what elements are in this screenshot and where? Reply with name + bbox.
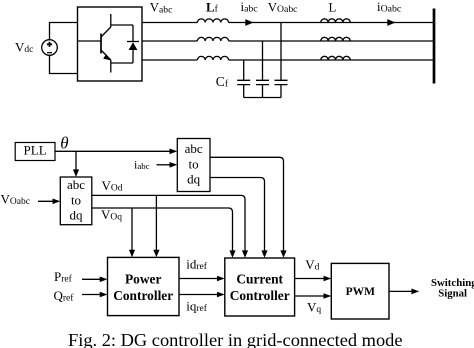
label Vdc [15, 39, 33, 55]
wire theta branch down [75, 151, 77, 171]
block Power Controller [108, 257, 180, 315]
wire theta to abc-dq [55, 150, 172, 152]
block Current Controller [225, 258, 295, 316]
svg-text:VOabc: VOabc [1, 191, 30, 207]
transistor Q1 [78, 14, 112, 73]
svg-text:abc: abc [185, 141, 203, 156]
arrow Voq into current controller [229, 250, 235, 257]
wire Vdc bottom [50, 55, 78, 73]
wire Voq to current controller [92, 208, 233, 251]
svg-text:Controller: Controller [230, 288, 290, 303]
svg-text:L: L [329, 0, 337, 14]
label L [329, 0, 337, 14]
wire phase a (top) [142, 22, 434, 24]
source Vdc [42, 40, 58, 56]
arrow id into current controller [280, 250, 286, 257]
wire phase c (bottom) [142, 59, 434, 61]
svg-text:PWM: PWM [346, 286, 376, 298]
svg-text:VOabc: VOabc [268, 1, 298, 16]
arrow theta into abc-dq 2 [73, 169, 79, 177]
inductor Lf phase c [197, 56, 228, 60]
svg-text:abc: abc [67, 177, 85, 192]
arrow Vd [324, 276, 332, 282]
label Cf [216, 74, 229, 90]
inductor L phase a [321, 19, 350, 23]
arrow iabc [245, 19, 253, 26]
inductor Lf phase b [197, 37, 228, 41]
arrow switching signal [411, 289, 419, 295]
arrow ioabc [387, 19, 395, 26]
label Qref [54, 288, 75, 304]
block abc-to-dq U3 (voltage) [60, 177, 92, 225]
wire idref to current controller [179, 278, 219, 280]
wire Vdc top [50, 23, 78, 40]
caption Fig. 2 [68, 330, 403, 348]
arrow iqref [217, 292, 225, 298]
wire iabc into abc-dq [157, 164, 172, 166]
wire iq from abc-dq to current controller [210, 178, 265, 252]
svg-text:to: to [189, 156, 199, 171]
svg-text:Vq: Vq [307, 300, 321, 315]
svg-text:Controller: Controller [113, 288, 173, 303]
inverter box U1 [78, 7, 143, 81]
svg-text:Current: Current [236, 271, 283, 286]
capacitor Cf phase a [275, 23, 288, 98]
label idref [186, 257, 208, 273]
label Vd [305, 257, 319, 272]
svg-text:to: to [71, 192, 81, 207]
capacitor Cf phase c [237, 60, 250, 98]
svg-text:PLL: PLL [24, 143, 47, 158]
arrow Vq [324, 293, 332, 299]
wire iqref to current controller [179, 294, 219, 296]
label iabc (control) [134, 158, 150, 172]
svg-text:VOd: VOd [102, 178, 123, 194]
svg-text:idref: idref [186, 257, 208, 273]
svg-text:iabc: iabc [134, 158, 150, 172]
arrow Voq into power controller [129, 250, 135, 257]
wire Voq branch to power controller [131, 208, 133, 251]
svg-text:Vabc: Vabc [150, 1, 173, 16]
svg-text:dq: dq [70, 207, 84, 222]
wire Qref into power controller [82, 294, 101, 296]
label iqref [186, 298, 208, 314]
svg-text:iqref: iqref [186, 298, 208, 314]
capacitor Cf phase b [256, 41, 269, 98]
svg-text:VOq: VOq [101, 207, 122, 223]
svg-text:θ: θ [60, 134, 68, 153]
wire id from abc-dq to current controller [210, 157, 284, 251]
svg-text:Fig. 2: DG controller in grid-: Fig. 2: DG controller in grid-connected … [68, 330, 403, 348]
label Switching Signal [431, 277, 474, 300]
label Lf [206, 0, 219, 15]
svg-text:Lf: Lf [206, 0, 219, 15]
inductor L phase c [321, 56, 350, 60]
svg-text:iabc: iabc [241, 0, 259, 15]
block PWM [331, 263, 389, 319]
label ioabc [377, 0, 402, 15]
block PLL [15, 143, 55, 161]
arrow Vod into current controller [242, 250, 248, 257]
arrow Pref [100, 277, 108, 283]
wire capacitor bottom bus [244, 97, 281, 99]
inductor Lf phase a [197, 19, 228, 23]
svg-text:Pref: Pref [54, 269, 73, 285]
svg-text:Cf: Cf [216, 74, 229, 90]
arrow theta into abc-dq [170, 149, 178, 155]
wire phase b (mid) [142, 40, 434, 42]
svg-text:Qref: Qref [54, 288, 75, 304]
svg-text:iOabc: iOabc [377, 0, 402, 15]
wire Vd to PWM [295, 278, 326, 280]
label Pref [54, 269, 73, 285]
diode D1 [111, 25, 139, 63]
arrow idref [217, 276, 225, 282]
label theta [60, 134, 68, 153]
label Voabc [268, 1, 298, 16]
wire PWM output [389, 290, 413, 292]
wire Pref into power controller [82, 278, 101, 280]
svg-text:Signal: Signal [438, 287, 467, 299]
block abc-to-dq U2 (current) [177, 139, 210, 192]
inductor L phase b [321, 37, 350, 41]
arrow Qref [100, 292, 108, 298]
wire Voabc into abc-dq [38, 200, 54, 202]
arrow iabc into abc-dq [170, 162, 178, 168]
label Voabc (control) [1, 191, 30, 207]
label Vabc [150, 1, 173, 16]
svg-text:Power: Power [125, 271, 161, 286]
svg-text:dq: dq [187, 171, 201, 186]
arrow Vod into power controller [153, 250, 159, 257]
label iabc [241, 0, 259, 15]
label Voq [101, 207, 122, 223]
wire Vod branch to power controller [155, 195, 157, 250]
arrow iq into current controller [261, 250, 267, 257]
svg-text:Vd: Vd [305, 257, 319, 272]
bus bar [433, 9, 436, 84]
arrow Voabc into abc-dq [53, 199, 61, 205]
label Vq [307, 300, 321, 315]
svg-text:Vdc: Vdc [15, 39, 33, 55]
wire Vod to current controller [92, 195, 245, 251]
wire Vq to PWM [295, 295, 326, 297]
label Vod [102, 178, 123, 194]
